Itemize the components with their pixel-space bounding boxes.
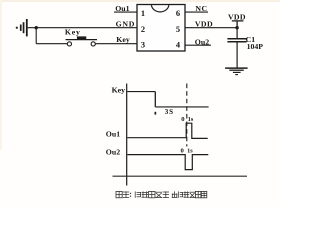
waveform Key falling edge bbox=[154, 92, 156, 107]
switch S1 (push button) bbox=[66, 36, 98, 46]
waveform Key low bbox=[155, 106, 208, 108]
svg-text:1s: 1s bbox=[188, 116, 194, 123]
waveform Ou1 bbox=[127, 123, 207, 138]
svg-text:6: 6 bbox=[176, 9, 180, 18]
svg-text:Ou1: Ou1 bbox=[115, 4, 129, 13]
wire: Ou2 stub pin 4 bbox=[185, 44, 211, 46]
svg-text:Ou2: Ou2 bbox=[106, 148, 120, 157]
waveform Ou2 bbox=[127, 155, 208, 170]
svg-text:3: 3 bbox=[141, 40, 145, 49]
node junction at ground rail bbox=[35, 26, 38, 29]
ground GND2 (earth below C1) bbox=[225, 68, 248, 75]
wire: ground to GND pin 2 bbox=[28, 27, 138, 29]
svg-text:Key: Key bbox=[65, 28, 81, 37]
svg-text:0: 0 bbox=[181, 116, 185, 123]
page tint top edge bbox=[0, 0, 280, 2]
svg-text:VDD: VDD bbox=[228, 12, 246, 21]
svg-text:0: 0 bbox=[181, 148, 185, 155]
IC U1 body bbox=[137, 5, 185, 52]
page tint left edge bbox=[0, 0, 2, 150]
note text (simulated CJK: 备注: 按键触发输 出波形示意图) bbox=[116, 191, 207, 197]
dashed marker line at 3S bbox=[186, 84, 188, 147]
tick below falling edge bbox=[155, 112, 157, 115]
power symbol VDD bbox=[228, 12, 246, 27]
wire: switch to Key pin 3 bbox=[95, 43, 137, 45]
node junction VDD/C1 bbox=[235, 26, 238, 29]
svg-text:Ou2: Ou2 bbox=[195, 37, 209, 46]
svg-text:104P: 104P bbox=[247, 42, 264, 51]
waveform Key high bbox=[127, 91, 155, 93]
IC U1 notch bbox=[151, 5, 169, 12]
wire: Ou1 stub pin 1 bbox=[114, 11, 138, 13]
svg-text:Key: Key bbox=[116, 35, 130, 44]
svg-text:Ou1: Ou1 bbox=[106, 130, 120, 139]
wire: NC stub pin 6 bbox=[185, 11, 208, 13]
wire: junction down bbox=[35, 28, 37, 44]
svg-text:2: 2 bbox=[141, 25, 145, 34]
wire: junction to C1 top bbox=[236, 28, 238, 38]
wire: to switch left terminal bbox=[36, 43, 67, 45]
timing axis vertical bbox=[126, 84, 128, 186]
svg-text:3S: 3S bbox=[165, 108, 174, 116]
svg-text:1s: 1s bbox=[187, 148, 193, 155]
svg-text:1: 1 bbox=[141, 9, 145, 18]
wire: VDD rail pin 5 bbox=[185, 27, 237, 29]
svg-text:5: 5 bbox=[176, 25, 180, 34]
svg-text:VDD: VDD bbox=[195, 19, 213, 28]
ground GND1 (left, sideways earth) bbox=[16, 19, 28, 36]
capacitor C1 bbox=[227, 39, 246, 42]
wire: C1 bottom to ground bbox=[236, 42, 238, 67]
svg-text:Key: Key bbox=[112, 86, 126, 95]
svg-text:NC: NC bbox=[195, 4, 207, 13]
time axis bottom bbox=[113, 175, 248, 177]
svg-text:GND: GND bbox=[116, 20, 135, 29]
